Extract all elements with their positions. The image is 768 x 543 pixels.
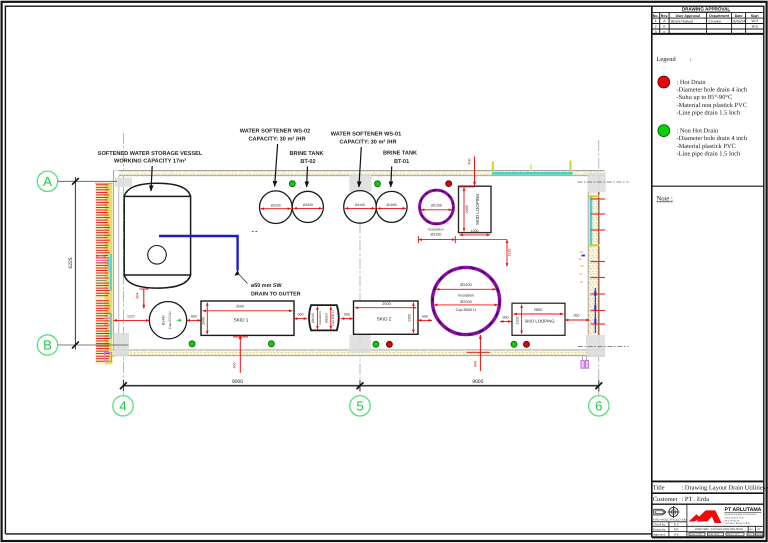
svg-text:Ø1100: Ø1100 (271, 203, 281, 207)
tank D1440 (149, 302, 186, 339)
svg-text:500: 500 (344, 312, 350, 316)
blue drain pipe to gutter (159, 236, 238, 271)
top wall band (114, 170, 605, 175)
svg-text:WATER SOFTENER WS-01: WATER SOFTENER WS-01 (331, 132, 401, 138)
svg-text:Sign: Sign (751, 14, 759, 18)
vertical dimension 6225 A-B (68, 177, 79, 350)
bottom wall band (96, 350, 605, 356)
svg-text:-Diameter hole drain 4 inch: -Diameter hole drain 4 inch (677, 87, 748, 94)
svg-text:Ø2500: Ø2500 (460, 300, 471, 304)
svg-text:400: 400 (468, 159, 472, 165)
legend block (657, 56, 748, 157)
svg-text:WORKING CAPACITY 17m³: WORKING CAPACITY 17m³ (114, 159, 186, 165)
svg-text:1221: 1221 (127, 314, 135, 318)
grid row line B (58, 344, 129, 346)
column block B/left (114, 333, 129, 356)
company / signature block (652, 504, 764, 537)
svg-text:804: 804 (136, 293, 140, 299)
svg-text:500: 500 (298, 312, 304, 316)
dim 500 skid1-cyl (294, 318, 307, 320)
svg-text:600: 600 (474, 361, 478, 367)
softened water storage vessel (124, 183, 190, 288)
svg-text:Ø1080: Ø1080 (387, 203, 397, 207)
column block grid6 top (588, 173, 606, 192)
svg-text:WATER SOFTENER WS-02: WATER SOFTENER WS-02 (240, 129, 310, 135)
svg-text:Indonesia: Bekasi 17530: Indonesia: Bekasi 17530 (725, 522, 751, 525)
svg-text:1300: 1300 (407, 314, 411, 322)
svg-text:BT-01: BT-01 (394, 159, 409, 165)
svg-text:CAPACITY: 30 m³ /HR: CAPACITY: 30 m³ /HR (249, 135, 306, 142)
legend non hot drain symbol (658, 125, 670, 137)
drawing approval table (652, 13, 764, 34)
svg-text:Insulation: Insulation (458, 293, 474, 297)
non-hot drain point (511, 341, 517, 347)
hot drain point (524, 341, 530, 347)
svg-text:P.R: P.R (674, 527, 678, 531)
grid bubble A (37, 171, 57, 191)
svg-text::: : (690, 56, 692, 63)
non-hot drain point (373, 341, 379, 347)
svg-text:No.: No. (653, 14, 659, 18)
hot drain point (386, 341, 392, 347)
svg-text:2: 2 (655, 25, 657, 29)
dim 900 tank-skidlooping (500, 321, 512, 323)
svg-text:SKID LOOPING: SKID LOOPING (524, 319, 554, 324)
svg-text:Scale 1:100: Scale 1:100 (690, 533, 702, 536)
svg-text:User Approval: User Approval (676, 14, 700, 18)
left wall (114, 170, 119, 357)
cyan gutter line top (492, 172, 573, 175)
svg-text:-Suhu up to 85°-90°C: -Suhu up to 85°-90°C (677, 94, 733, 101)
svg-text:-Line pipe drain 1.5 Inch: -Line pipe drain 1.5 Inch (677, 150, 742, 157)
dim 950 skidlooping-wall (565, 319, 580, 321)
note section (652, 185, 764, 187)
yellow hanger ticks top (492, 162, 494, 171)
svg-text:1200: 1200 (516, 317, 520, 325)
skid looping V bottom dim 1200 (460, 234, 491, 236)
svg-text:General Supplier & Contractor: General Supplier & Contractor (725, 513, 757, 516)
svg-text:Title: Title (653, 484, 665, 491)
svg-text:: Non Hot Drain: : Non Hot Drain (677, 128, 720, 135)
red hanger ticks right wall (591, 198, 606, 200)
grid bubble 5 (350, 396, 370, 416)
vessel leader arrow (151, 166, 152, 191)
svg-text:Ø1600: Ø1600 (325, 313, 329, 323)
svg-text:Insulation: Insulation (428, 227, 443, 231)
svg-text:Jalan Industri V/10: Jalan Industri V/10 (725, 517, 745, 520)
grid row line A (58, 180, 117, 182)
company logo (689, 510, 711, 521)
svg-text:Ø1250: Ø1250 (431, 203, 442, 207)
svg-text:1300: 1300 (201, 317, 205, 325)
svg-text:Check by: Check by (653, 522, 666, 526)
svg-text:Ø2400: Ø2400 (460, 283, 471, 287)
svg-text:Sheet 1 of 1: Sheet 1 of 1 (727, 533, 740, 536)
svg-text:b: b (663, 25, 665, 29)
svg-text:Department: Department (709, 14, 730, 18)
dim 804 vessel to tank (140, 288, 149, 290)
svg-text:CAPACITY: 30 m³ /HR: CAPACITY: 30 m³ /HR (340, 138, 397, 145)
svg-text:Legend: Legend (657, 56, 677, 63)
svg-text:Insulation: Insulation (318, 311, 322, 325)
svg-text:900: 900 (191, 314, 197, 318)
legend hot drain symbol (658, 76, 670, 88)
svg-text:3500: 3500 (236, 305, 244, 309)
svg-text:-Material plastick PVC: -Material plastick PVC (677, 143, 736, 150)
svg-text:1125: 1125 (507, 249, 511, 257)
svg-text:Bharis Hidayat: Bharis Hidayat (671, 19, 693, 23)
svg-text:Cap.8000 Lt: Cap.8000 Lt (456, 308, 478, 312)
non-hot drain point (375, 181, 381, 187)
svg-text:SKID 2: SKID 2 (377, 317, 392, 322)
svg-text:4: 4 (119, 398, 126, 413)
cyan gutter line right wall (590, 197, 592, 246)
column block grid5 top (349, 174, 371, 192)
svg-text:: Hot Drain: : Hot Drain (677, 79, 707, 86)
svg-text:5: 5 (356, 398, 363, 413)
centerline bottom-right column (578, 346, 629, 348)
svg-text:-Diameter hole drain 4 inch: -Diameter hole drain 4 inch (677, 135, 748, 142)
non-hot drain point (289, 181, 295, 187)
svg-text:R0: R0 (757, 528, 761, 531)
svg-text:Creation: Creation (709, 20, 722, 24)
water softener WS-02 (260, 191, 293, 224)
svg-text:Ø1100: Ø1100 (355, 203, 365, 207)
svg-text:: PT . Erda: : PT . Erda (682, 496, 710, 503)
svg-text:6225: 6225 (68, 257, 74, 268)
bottom dimension line 9000+9000 (120, 379, 602, 391)
non-hot drain point (189, 341, 195, 347)
dim 1221 (114, 319, 150, 321)
dim 500 skid2-tank (418, 319, 432, 321)
svg-text:900: 900 (503, 316, 509, 320)
svg-text:DRAWING APPROVAL: DRAWING APPROVAL (682, 7, 731, 12)
column block grid6 bottom (586, 335, 605, 357)
svg-text:BRINE TANK: BRINE TANK (289, 151, 323, 157)
svg-text:E.S: E.S (674, 522, 679, 526)
svg-text:ø50 mm SW: ø50 mm SW (251, 283, 282, 289)
svg-text:6: 6 (595, 398, 602, 413)
svg-text:Blok 4B No.26: Blok 4B No.26 (725, 519, 740, 522)
svg-text:2500: 2500 (382, 302, 390, 306)
svg-text:DWG NBR : ATC/ARL-DRG-001-05/2: DWG NBR : ATC/ARL-DRG-001-05/24 (695, 527, 743, 531)
svg-text:BRINE TANK: BRINE TANK (383, 151, 417, 157)
misc speckles right wall (579, 252, 584, 282)
grid bubble 6 (589, 396, 609, 416)
hot drain point (446, 181, 452, 187)
SKID 2 (354, 301, 419, 334)
grid line 4 (122, 133, 124, 395)
svg-text:Ø1350: Ø1350 (431, 233, 442, 237)
svg-text:2800: 2800 (534, 308, 542, 312)
grid line 6 (598, 140, 600, 395)
dim 400 above skid looping V (474, 157, 476, 186)
water softener WS-01 (344, 191, 377, 224)
svg-text:W.H: W.H (751, 19, 758, 23)
svg-text:05/2024: 05/2024 (756, 533, 765, 536)
grid bubble 4 (113, 396, 133, 416)
svg-text:Approved: Approved (653, 532, 666, 536)
svg-text:2000: 2000 (465, 205, 469, 213)
svg-text:: Drawing Layout Drain Utiliti: : Drawing Layout Drain Utilities Area (682, 484, 768, 491)
svg-text:Customer: Customer (653, 496, 679, 503)
third angle projection symbol (654, 506, 680, 518)
svg-text:20/05/24: 20/05/24 (732, 19, 745, 23)
svg-text:c: c (664, 30, 666, 34)
hot water tank D2400 (432, 267, 499, 334)
dim 900 tank-skid1 (187, 319, 201, 321)
grid bubble B (37, 335, 57, 355)
svg-text:THIRD ANGLE PROJECTION: THIRD ANGLE PROJECTION (652, 519, 687, 522)
svg-text:Drawn by: Drawn by (653, 527, 666, 531)
svg-text:1200: 1200 (471, 229, 479, 233)
svg-text:Date: Date (735, 14, 743, 18)
svg-text:SOFTENED WATER STORAGE VESSEL: SOFTENED WATER STORAGE VESSEL (98, 151, 203, 157)
title-block panel divider (651, 6, 653, 537)
svg-text:B: B (43, 338, 52, 353)
grid line 5 (359, 170, 361, 395)
title row (652, 480, 764, 482)
brine tank BT-01 (376, 191, 407, 222)
svg-text:400: 400 (233, 363, 237, 369)
svg-text:3: 3 (655, 30, 657, 34)
svg-text:9000: 9000 (232, 379, 243, 385)
svg-text:SKID 1: SKID 1 (234, 317, 249, 322)
svg-text:R.K.: R.K. (674, 532, 680, 536)
svg-text:DRAIN TO GUTTER: DRAIN TO GUTTER (251, 291, 301, 297)
skid1 drain dim 400 (233, 336, 248, 338)
svg-text:Rev.: Rev. (661, 14, 668, 18)
svg-text:Note :: Note : (657, 196, 673, 203)
svg-text:950: 950 (574, 314, 580, 318)
svg-text:Ø1090: Ø1090 (303, 203, 313, 207)
svg-text:-Material non plastick PVC: -Material non plastick PVC (677, 102, 747, 109)
skid looping (horizontal) (512, 303, 565, 335)
insulated tank D1250 (420, 190, 454, 224)
svg-text:SKID LOOPING: SKID LOOPING (475, 193, 480, 225)
svg-text:A: A (43, 174, 52, 189)
centerline top-right column (577, 181, 628, 183)
svg-text:Date: draw: Date: draw (709, 533, 720, 536)
column block grid4/A (115, 178, 132, 187)
brine tank BT-02 (292, 191, 323, 222)
non-hot drain point (268, 341, 274, 347)
column block grid5 bottom (349, 335, 371, 353)
existing piping hatch strip (left wall elevation) (95, 183, 112, 364)
svg-text:BT-02: BT-02 (300, 159, 315, 165)
skid looping (vertical) (459, 186, 492, 232)
yellow ticks right wall (588, 195, 600, 197)
right wall (588, 192, 599, 336)
buffer cylinder D1500 (309, 305, 339, 330)
svg-text:Ø1440: Ø1440 (161, 315, 165, 325)
svg-text:A3: A3 (750, 528, 754, 531)
svg-text:Cap.600 Lt: Cap.600 Lt (331, 310, 335, 326)
tank D2400 drain dim 600 (467, 351, 490, 353)
svg-text:500: 500 (422, 314, 428, 318)
SKID 1 (201, 301, 294, 335)
dim 500 cyl-skid2 (341, 318, 353, 320)
svg-text:9000: 9000 (472, 379, 483, 385)
svg-text:-Line pipe drain 1.5 Inch: -Line pipe drain 1.5 Inch (677, 109, 742, 116)
svg-text:W.S: W.S (752, 25, 759, 29)
violet drain stubs below wall (583, 356, 587, 361)
drain label leader (239, 275, 248, 284)
blue pipe marks right wall (594, 288, 596, 333)
svg-text:Cap.2000Lt: Cap.2000Lt (168, 311, 172, 329)
dim 1125 (506, 240, 508, 267)
svg-text:Ø1500: Ø1500 (311, 313, 315, 323)
svg-text:1: 1 (655, 19, 657, 23)
